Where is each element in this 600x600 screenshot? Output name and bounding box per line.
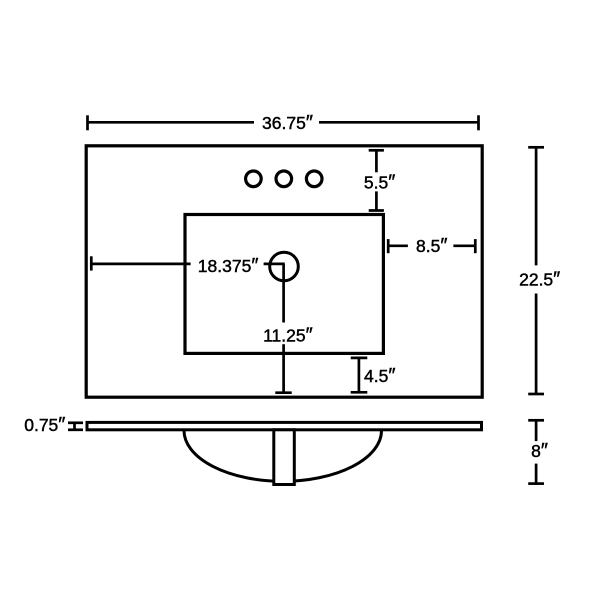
dimension 0.75" slab thickness tick [68, 423, 83, 430]
sink cutout rectangle [185, 215, 383, 354]
dimension 8.5" cutout to edge [388, 239, 475, 253]
svg-text:18.375″: 18.375″ [198, 255, 259, 277]
svg-text:4.5″: 4.5″ [364, 365, 395, 387]
svg-text:8″: 8″ [531, 440, 548, 462]
svg-text:5.5″: 5.5″ [364, 172, 395, 194]
faucet hole left [246, 171, 262, 187]
dimension 5.5" faucet offset [369, 150, 384, 210]
svg-text:0.75″: 0.75″ [24, 414, 65, 436]
dimension 8" bowl depth [528, 420, 544, 483]
dimension 11.25" drain to front [275, 264, 291, 393]
dimension 22.5" overall depth [528, 147, 544, 394]
basin bowl (side view) [184, 431, 382, 482]
drain circle [270, 252, 299, 281]
faucet hole center [276, 171, 292, 187]
side view slab [87, 422, 482, 429]
dimension 18.375" edge to drain [91, 256, 284, 270]
svg-text:11.25″: 11.25″ [263, 324, 313, 346]
faucet hole right [306, 171, 322, 187]
svg-text:36.75″: 36.75″ [262, 112, 313, 134]
svg-text:22.5″: 22.5″ [519, 268, 560, 290]
countertop outline (top view) [86, 146, 482, 397]
svg-text:8.5″: 8.5″ [416, 235, 447, 257]
dimension 36.75" overall width [88, 115, 479, 130]
drain pipe (side view) [274, 430, 295, 485]
dimension 4.5" cutout to front [351, 358, 368, 392]
